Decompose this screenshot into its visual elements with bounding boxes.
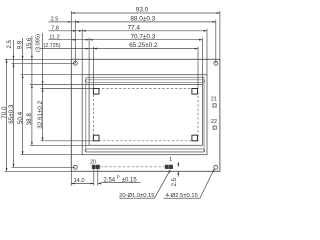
- callout 4-Ø2.5±0.15: [164, 168, 215, 199]
- callout 20-Ø1.0±0.15: [119, 169, 170, 199]
- dim (2.725): [43, 43, 96, 49]
- dim 2.5 top-left + 88.0±0.3 row line: [49, 21, 216, 23]
- ext h bezel-top: [21, 74, 83, 76]
- ext v hole-right top: [215, 20, 217, 63]
- svg-text:21: 21: [211, 96, 217, 102]
- viewing area dashed 65.25 x 32.61: [93, 89, 198, 141]
- svg-text:7.8: 7.8: [51, 25, 59, 31]
- bezel outline 77.4 x 50.4: [82, 75, 207, 155]
- pad 21: [213, 104, 216, 107]
- bezel inner frame: [86, 77, 204, 152]
- svg-text:2.5: 2.5: [7, 39, 13, 48]
- svg-text:77.4: 77.4: [127, 24, 140, 31]
- ext h window-top: [30, 84, 89, 86]
- svg-text:1: 1: [169, 157, 172, 163]
- dim 93.0: [71, 7, 220, 14]
- ext v pcb-right top: [219, 11, 221, 59]
- pin 1 pad: [169, 165, 172, 169]
- dim (2.725) + 65.25±0.2 row line: [40, 48, 198, 50]
- mounting hole 3: [73, 165, 77, 169]
- dim 2.5 vertical arrow: [13, 56, 15, 59]
- ext v bezel-right top: [206, 29, 208, 75]
- pin 19 pad: [96, 165, 99, 169]
- dim 9.8 arrow: [22, 56, 24, 59]
- mounting hole 1: [73, 61, 77, 65]
- dim 77.4: [82, 24, 207, 31]
- ext h va-top: [41, 88, 94, 90]
- pin 2 pad: [165, 165, 168, 169]
- dim 2.54P ±0.15: [98, 175, 141, 185]
- svg-text:65±0.3: 65±0.3: [8, 104, 15, 124]
- dim 70.0: [1, 59, 8, 171]
- mounting hole 2: [214, 61, 218, 65]
- svg-text:88.0±0.3: 88.0±0.3: [130, 16, 155, 23]
- ext h hole-bottom: [12, 166, 76, 168]
- dim 11.2: [49, 34, 89, 40]
- dim 7.8 + 77.4 row line: [49, 30, 208, 32]
- dim 15.6 arrow: [31, 56, 33, 59]
- dim 65±0.3: [8, 40, 15, 167]
- pad 22: [213, 126, 216, 129]
- ext v pcb-left top: [70, 11, 72, 59]
- ext v pin20 bottom: [93, 169, 95, 186]
- corner mark top-left: [93, 89, 99, 95]
- dim 11.2 + 70.7±0.3 row line: [49, 39, 203, 41]
- ext v pin19 bottom: [97, 169, 99, 186]
- svg-text:2.5: 2.5: [172, 177, 178, 186]
- dim 88.0±0.3: [75, 16, 216, 23]
- ext h window-bottom: [30, 144, 89, 146]
- ext v hole-left top: [74, 20, 76, 63]
- PCB outline 93.0 x 70.0: [71, 59, 220, 171]
- svg-text:11.2: 11.2: [49, 34, 59, 40]
- corner mark bottom-left: [93, 135, 99, 141]
- pin row dashed centerline: [100, 166, 165, 168]
- svg-text:38.8: 38.8: [26, 113, 33, 126]
- ext h va-bottom: [41, 140, 94, 142]
- svg-text:65.25±0.2: 65.25±0.2: [129, 42, 158, 49]
- ext v bezel-left top: [81, 29, 83, 75]
- ext h hole-top: [12, 62, 76, 64]
- bezel tab bar top (rounded ends): [85, 80, 204, 83]
- ext h bezel-bottom: [21, 154, 83, 156]
- svg-text:32.61±0.2: 32.61±0.2: [37, 100, 44, 128]
- svg-text:9.8: 9.8: [17, 40, 23, 49]
- svg-text:(3.095): (3.095): [35, 34, 41, 52]
- dim 32.61±0.2: [37, 48, 44, 141]
- ext v window-right top: [201, 38, 203, 85]
- svg-text:15.6: 15.6: [27, 37, 33, 49]
- svg-text:70.7±0.3: 70.7±0.3: [130, 33, 155, 40]
- ext v pcb-left bottom: [70, 171, 72, 185]
- dim 50.4: [17, 38, 24, 155]
- svg-text:2.5: 2.5: [51, 17, 59, 23]
- ext h pcb-top: [5, 58, 72, 60]
- svg-text:50.4: 50.4: [17, 111, 24, 124]
- svg-text:(2.725): (2.725): [43, 43, 60, 49]
- svg-text:70.0: 70.0: [1, 106, 8, 119]
- svg-text:22: 22: [211, 119, 217, 125]
- mounting hole 4: [214, 165, 218, 169]
- dim 14.0: [71, 178, 94, 185]
- bezel tab bar bottom (rounded ends): [85, 149, 205, 152]
- display window 70.7 x 38.8: [89, 85, 202, 146]
- dim 2.5 bottom right: [172, 162, 179, 186]
- ext v va-right top: [197, 47, 199, 89]
- dim (3.095) arrow: [42, 81, 44, 84]
- ext h pcb-bottom: [5, 170, 72, 172]
- ext v window-left top: [88, 38, 90, 85]
- svg-text:P: P: [117, 175, 120, 180]
- svg-text:14.0: 14.0: [74, 178, 85, 184]
- corner mark top-right: [192, 89, 198, 95]
- dim 2.5 top-left: [51, 17, 79, 23]
- dim 65.25±0.2: [93, 42, 198, 49]
- dim 70.7±0.3: [89, 33, 202, 40]
- pin 20 pad: [92, 165, 95, 169]
- dim 7.8: [51, 25, 82, 31]
- ext v va-left top: [92, 47, 94, 89]
- dim (3.095) tail: [42, 33, 44, 48]
- dim 38.8: [26, 36, 33, 145]
- svg-text:93.0: 93.0: [136, 7, 149, 14]
- svg-text:20: 20: [90, 159, 96, 165]
- corner mark bottom-right: [192, 135, 198, 141]
